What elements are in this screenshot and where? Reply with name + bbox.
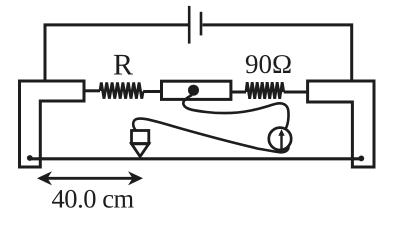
jockey body (square) (132, 131, 149, 144)
terminal dot left (27, 155, 33, 161)
battery B1 short plate (200, 12, 203, 36)
slide wire (bottom) (30, 157, 362, 160)
wire top left horizontal (45, 25, 188, 82)
galvanometer G circle (269, 128, 291, 150)
terminal dot right (358, 156, 364, 162)
dimension arrowhead right (128, 171, 143, 185)
svg-text:40.0 cm: 40.0 cm (52, 183, 135, 212)
dimension arrowhead left (37, 171, 52, 185)
resistor R zigzag (100, 83, 143, 99)
flexible wire jockey to galvanometer (133, 119, 288, 153)
flexible wire box dot to galvanometer (183, 95, 288, 130)
svg-text:90Ω: 90Ω (245, 49, 292, 79)
wire 90ohm to right strip (284, 91, 307, 94)
jockey tip (triangle) (132, 144, 149, 157)
resistor 90ohm zigzag (246, 82, 284, 99)
copper strip left (L-shape) (20, 81, 85, 167)
wire box to 90ohm (231, 91, 246, 94)
galvanometer needle shaft (280, 135, 282, 150)
dimension arrow 40 cm (40, 177, 140, 180)
tap dot inside box (188, 85, 199, 96)
battery B1 long plate (188, 6, 191, 44)
copper strip right (L-shape) (308, 81, 374, 167)
wire stub strip to R (84, 89, 100, 92)
wire top right horizontal (203, 25, 352, 82)
wire R to box (143, 90, 161, 93)
resistance box U1 (162, 81, 231, 99)
galvanometer needle head (278, 129, 284, 136)
svg-text:R: R (113, 48, 133, 81)
